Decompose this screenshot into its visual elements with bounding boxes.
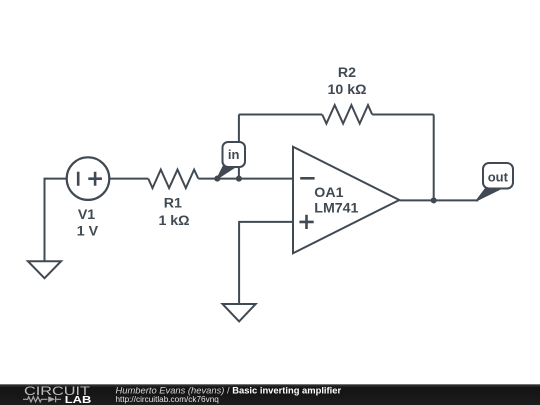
node flag "in" box	[223, 142, 246, 167]
wire: V1 to R1	[109, 178, 148, 180]
node flag "out" box	[483, 163, 513, 189]
op-amp inverting input marker	[300, 177, 314, 180]
ground (below op-amp)	[223, 304, 256, 321]
op-amp non-inverting input marker	[299, 215, 313, 229]
svg-text:http://circuitlab.com/ck76vnq: http://circuitlab.com/ck76vnq	[116, 395, 220, 404]
svg-text:V1: V1	[78, 207, 95, 223]
svg-text:in: in	[228, 147, 240, 162]
node dot: in flag attachment	[214, 176, 220, 182]
wire: left corner from V1 to ground riser	[45, 179, 67, 262]
svg-text:out: out	[488, 169, 509, 184]
wire: non-inverting input to ground	[239, 222, 293, 304]
wire: R2 left lead	[239, 114, 322, 116]
svg-text:LM741: LM741	[314, 200, 358, 216]
wire: op-amp output	[399, 199, 478, 201]
wire: R1 to op-amp inverting input	[198, 178, 293, 180]
svg-text:R2: R2	[338, 65, 356, 81]
svg-text:1 kΩ: 1 kΩ	[158, 213, 189, 229]
CircuitLab logo squiggle resistor and diode	[23, 396, 61, 402]
footer bar	[0, 384, 540, 405]
op-amp OA1 triangle	[293, 147, 399, 254]
ground (below V1)	[28, 261, 61, 278]
resistor R2	[322, 105, 372, 124]
node dot: output junction	[431, 197, 437, 203]
voltage source V1	[67, 157, 110, 200]
wire: R2 right lead	[372, 114, 434, 116]
resistor R1	[148, 170, 198, 189]
wire: feedback drop to output	[433, 115, 435, 201]
svg-text:1 V: 1 V	[77, 224, 99, 240]
svg-text:10 kΩ: 10 kΩ	[328, 82, 367, 98]
svg-text:OA1: OA1	[314, 185, 343, 201]
svg-text:R1: R1	[164, 196, 182, 212]
node flag "out" pointer wedge	[476, 188, 499, 201]
svg-text:Humberto Evans (hevans) / Basi: Humberto Evans (hevans) / Basic invertin…	[116, 384, 342, 395]
wire: feedback riser at node in	[238, 115, 240, 179]
node flag "in" pointer wedge	[217, 166, 235, 180]
svg-text:LAB: LAB	[65, 395, 92, 405]
node dot: feedback tap junction	[236, 176, 242, 182]
